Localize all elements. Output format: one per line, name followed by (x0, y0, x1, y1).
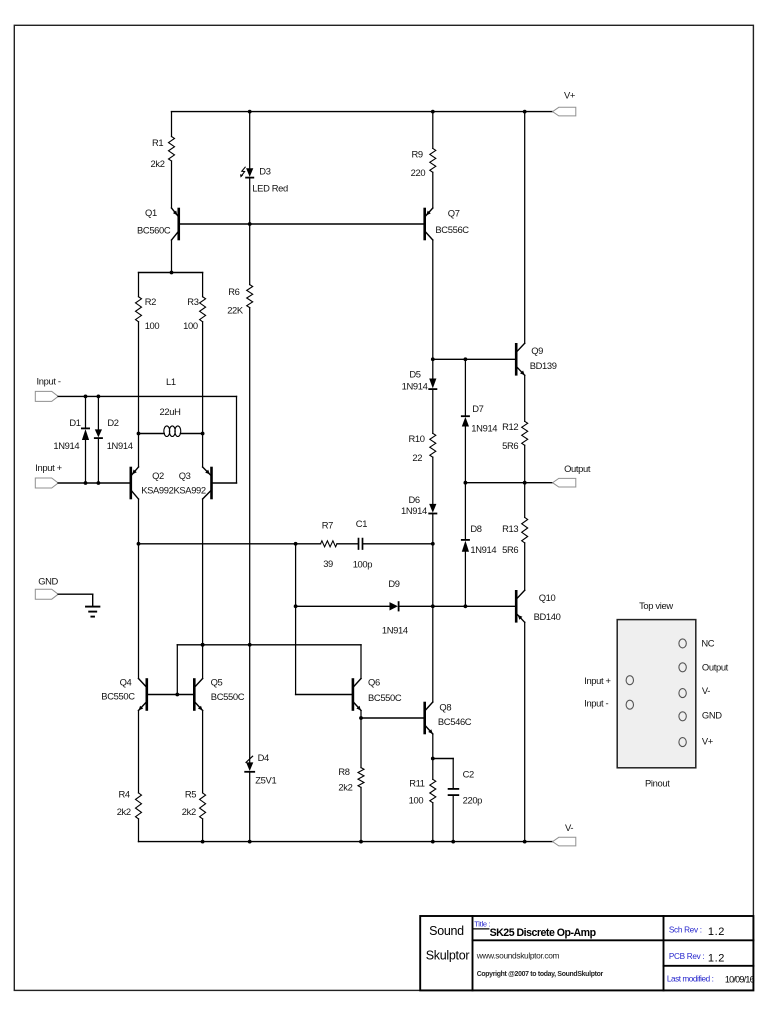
svg-text:Output: Output (564, 463, 591, 474)
svg-text:1.2: 1.2 (708, 953, 725, 965)
svg-text:1N914: 1N914 (382, 625, 408, 636)
svg-text:Top view: Top view (639, 600, 673, 611)
svg-text:Q7: Q7 (448, 208, 460, 219)
svg-text:2k2: 2k2 (117, 806, 131, 817)
svg-text:V+: V+ (702, 736, 714, 747)
svg-text:V-: V- (702, 685, 710, 696)
svg-text:BC556C: BC556C (435, 224, 469, 235)
svg-text:Pinout: Pinout (645, 778, 670, 789)
svg-text:R13: R13 (502, 523, 518, 534)
svg-text:L1: L1 (166, 376, 176, 387)
svg-text:LED Red: LED Red (252, 183, 288, 194)
svg-text:100: 100 (409, 795, 424, 806)
svg-text:Q10: Q10 (539, 592, 556, 603)
svg-text:1N914: 1N914 (471, 423, 497, 434)
svg-text:D8: D8 (470, 523, 481, 534)
svg-text:BD139: BD139 (530, 360, 557, 371)
svg-text:22K: 22K (227, 305, 244, 316)
svg-text:10/09/16: 10/09/16 (725, 975, 755, 985)
svg-text:Input +: Input + (584, 675, 611, 686)
svg-text:100: 100 (183, 320, 198, 331)
svg-text:R5: R5 (185, 789, 196, 800)
svg-text:Sound: Sound (429, 924, 464, 938)
svg-text:Skulptor: Skulptor (426, 949, 470, 963)
svg-text:PCB Rev :: PCB Rev : (669, 952, 705, 961)
svg-text:1N914: 1N914 (107, 440, 133, 451)
svg-text:Z5V1: Z5V1 (255, 775, 276, 786)
svg-text:Q6: Q6 (368, 677, 380, 688)
svg-text:D7: D7 (472, 403, 483, 414)
svg-text:BD140: BD140 (534, 611, 561, 622)
svg-text:R10: R10 (409, 433, 425, 444)
svg-text:SK25 Discrete Op-Amp: SK25 Discrete Op-Amp (490, 927, 597, 939)
svg-text:5R6: 5R6 (502, 544, 518, 555)
svg-text:BC560C: BC560C (137, 225, 171, 236)
svg-text:Input -: Input - (584, 698, 608, 709)
svg-text:1N914: 1N914 (53, 440, 79, 451)
svg-text:Q1: Q1 (145, 207, 157, 218)
svg-text:22: 22 (412, 452, 422, 463)
svg-text:100: 100 (145, 320, 160, 331)
svg-text:Q5: Q5 (211, 677, 223, 688)
svg-text:R8: R8 (338, 766, 349, 777)
svg-text:www.soundskulptor.com: www.soundskulptor.com (476, 951, 560, 961)
svg-text:NC: NC (701, 638, 714, 649)
svg-text:D3: D3 (259, 166, 270, 177)
svg-text:GND: GND (38, 576, 58, 587)
svg-text:1N914: 1N914 (402, 381, 428, 392)
svg-text:Input -: Input - (37, 376, 61, 387)
svg-text:R2: R2 (145, 296, 156, 307)
svg-text:1N914: 1N914 (401, 505, 427, 516)
svg-text:D5: D5 (409, 369, 420, 380)
svg-text:D2: D2 (107, 417, 118, 428)
svg-text:V-: V- (565, 822, 573, 833)
svg-text:1.2: 1.2 (708, 926, 725, 938)
svg-text:BC550C: BC550C (211, 691, 245, 702)
svg-text:R4: R4 (119, 789, 130, 800)
svg-text:R3: R3 (187, 296, 198, 307)
svg-text:Title :: Title : (474, 920, 490, 929)
svg-text:R6: R6 (228, 286, 239, 297)
svg-text:D4: D4 (258, 752, 269, 763)
svg-text:Q2: Q2 (152, 470, 164, 481)
svg-text:Input +: Input + (35, 462, 62, 473)
svg-text:Q3: Q3 (179, 470, 191, 481)
svg-text:2k2: 2k2 (182, 806, 196, 817)
svg-text:D1: D1 (69, 417, 80, 428)
svg-text:D9: D9 (388, 578, 399, 589)
svg-text:2k2: 2k2 (151, 158, 165, 169)
svg-text:Last modified :: Last modified : (667, 974, 714, 983)
svg-text:C1: C1 (356, 518, 367, 529)
svg-text:1N914: 1N914 (470, 544, 496, 555)
svg-text:Q9: Q9 (531, 345, 543, 356)
svg-text:Q8: Q8 (439, 702, 451, 713)
svg-text:Copyright @2007 to today, Soun: Copyright @2007 to today, SoundSkulptor (477, 971, 604, 978)
svg-text:R12: R12 (502, 421, 518, 432)
svg-text:R11: R11 (409, 778, 425, 789)
svg-text:22uH: 22uH (160, 406, 181, 417)
svg-text:220p: 220p (463, 795, 483, 806)
svg-text:Q4: Q4 (120, 677, 132, 688)
svg-text:R9: R9 (412, 149, 423, 160)
svg-text:BC550C: BC550C (101, 691, 135, 702)
svg-text:Output: Output (702, 662, 729, 673)
svg-text:39: 39 (323, 558, 333, 569)
svg-text:GND: GND (702, 710, 722, 721)
svg-text:R1: R1 (152, 137, 163, 148)
svg-text:C2: C2 (463, 769, 474, 780)
svg-text:Sch Rev :: Sch Rev : (669, 925, 702, 934)
svg-text:D6: D6 (409, 494, 420, 505)
svg-text:BC546C: BC546C (438, 716, 472, 727)
svg-text:BC550C: BC550C (368, 692, 402, 703)
svg-text:KSA992KSA992: KSA992KSA992 (141, 485, 206, 496)
svg-text:2k2: 2k2 (338, 782, 352, 793)
svg-text:220: 220 (411, 167, 426, 178)
svg-text:100p: 100p (353, 559, 373, 570)
svg-text:5R6: 5R6 (502, 440, 518, 451)
svg-text:R7: R7 (322, 520, 333, 531)
svg-text:V+: V+ (564, 90, 576, 101)
